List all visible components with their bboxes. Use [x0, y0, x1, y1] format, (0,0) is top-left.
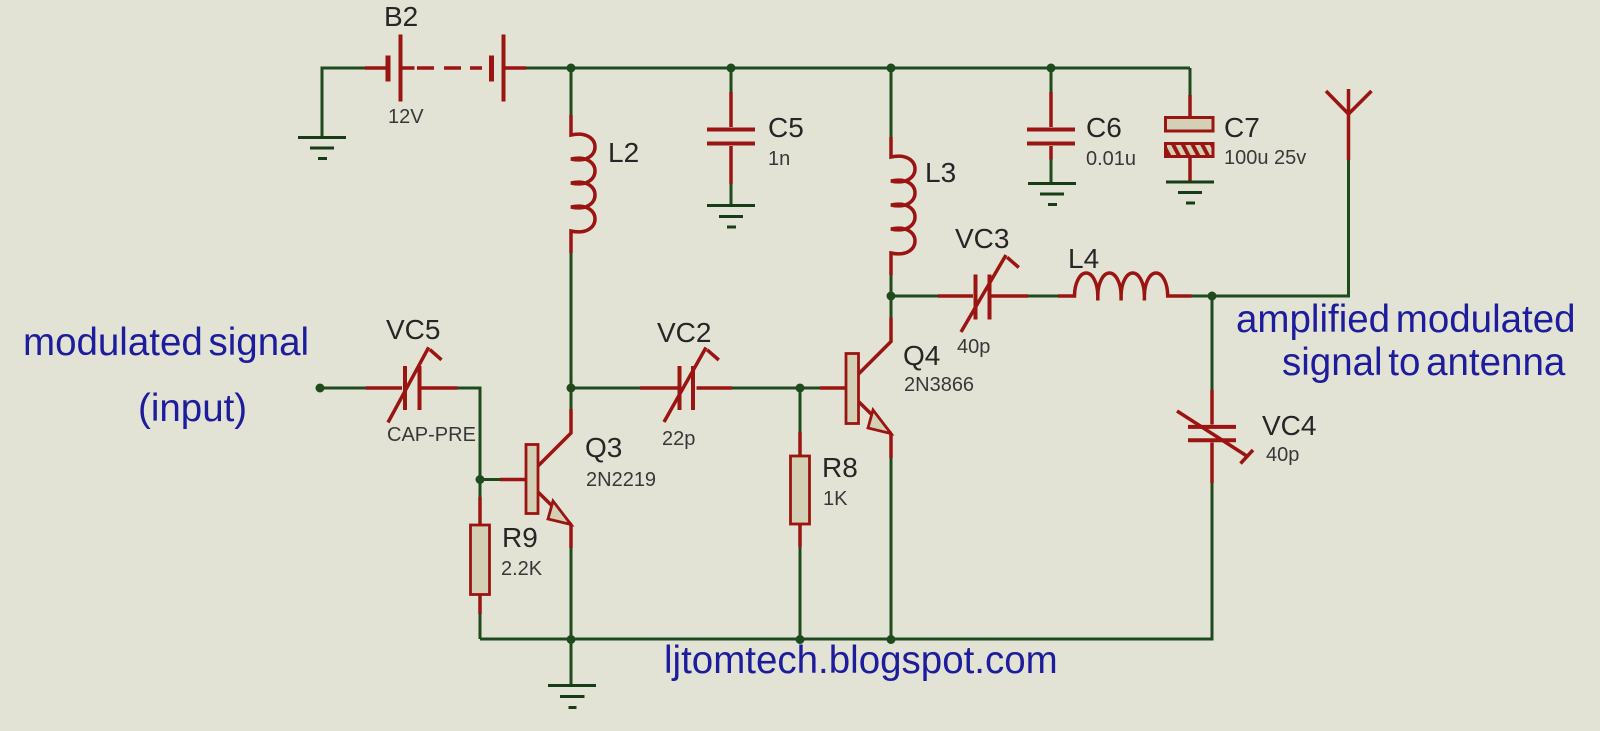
svg-text:signal to antenna: signal to antenna	[1282, 341, 1566, 384]
wire collector node to Q4	[890, 296, 893, 318]
svg-text:40p: 40p	[957, 336, 990, 358]
svg-text:2.2K: 2.2K	[501, 558, 543, 580]
svg-text:R9: R9	[502, 522, 538, 553]
node Q4 base / R8	[796, 384, 805, 393]
svg-text:CAP-PRE: CAP-PRE	[387, 424, 476, 446]
svg-text:ljtomtech.blogspot.com: ljtomtech.blogspot.com	[664, 639, 1058, 682]
svg-text:amplified modulated: amplified modulated	[1236, 298, 1576, 341]
node bottom rail / Q4 emitter	[887, 635, 896, 644]
ground (bottom rail)	[548, 686, 596, 708]
wire base node to Q3	[480, 478, 500, 481]
wire top power rail	[526, 67, 1190, 70]
wire L2 to collector node	[570, 253, 573, 388]
svg-text:VC4: VC4	[1262, 410, 1316, 441]
node top rail / C6	[1047, 64, 1056, 73]
capacitor C6	[1027, 92, 1075, 160]
wire VC4 to bottom rail	[480, 483, 1212, 639]
wire base node to R9	[479, 480, 482, 498]
svg-text:C7: C7	[1224, 112, 1260, 143]
ground (C6)	[1028, 184, 1076, 205]
variable capacitor VC4	[1177, 390, 1253, 483]
transistor Q3	[500, 409, 571, 548]
svg-text:Q3: Q3	[585, 432, 622, 463]
wire collector node to VC3	[891, 295, 938, 298]
node Q3 base / R9	[476, 475, 485, 484]
wire rail to L3	[890, 68, 893, 137]
wire VC2 to Q4 base node	[732, 387, 800, 390]
wire R8 to bottom rail	[799, 547, 802, 639]
resistor R8	[791, 432, 810, 547]
svg-text:R8: R8	[822, 452, 858, 483]
ground (left, battery)	[298, 138, 346, 159]
inductor L2	[571, 115, 595, 253]
svg-text:L3: L3	[925, 157, 956, 188]
node top rail / C5	[727, 64, 736, 73]
wire C6 to ground	[1050, 160, 1053, 184]
capacitor C7 (electrolytic)	[1166, 95, 1214, 182]
wire collector node stub	[570, 388, 573, 409]
svg-text:(input): (input)	[138, 387, 247, 430]
antenna	[1326, 89, 1372, 160]
wire antenna to output node	[1212, 160, 1349, 296]
node bottom rail / ground tap	[567, 635, 576, 644]
wire Q3 emitter to bottom rail	[570, 548, 573, 639]
wire L4 to output node	[1192, 295, 1213, 298]
node Q3 collector / L2 / VC2	[567, 384, 576, 393]
svg-text:Q4: Q4	[903, 340, 940, 371]
node top rail / L2	[567, 64, 576, 73]
svg-text:1n: 1n	[768, 148, 790, 170]
capacitor C5	[707, 92, 755, 184]
resistor R9	[471, 497, 490, 614]
node output (L4/VC4/antenna)	[1208, 292, 1217, 301]
svg-text:40p: 40p	[1266, 444, 1299, 466]
wire rail to C6	[1050, 68, 1053, 92]
svg-text:modulated signal: modulated signal	[23, 321, 309, 364]
transistor Q4	[820, 318, 891, 459]
svg-text:C6: C6	[1086, 112, 1122, 143]
wire rail to L2	[570, 68, 573, 115]
battery B2	[365, 35, 526, 102]
wire ground stub	[570, 639, 573, 685]
wire rail to C5	[730, 68, 733, 92]
svg-text:VC3: VC3	[955, 223, 1009, 254]
wire base node to R8	[799, 388, 802, 432]
svg-text:B2: B2	[384, 1, 418, 32]
ground (C7)	[1166, 182, 1214, 203]
svg-text:12V: 12V	[388, 106, 424, 128]
wire input to VC5	[320, 387, 366, 390]
svg-text:C5: C5	[768, 112, 804, 143]
wire C5 to ground	[730, 184, 733, 205]
wire R9 to bottom rail	[479, 614, 482, 639]
wire VC3 to L4	[1028, 295, 1058, 298]
node bottom rail / R8	[796, 635, 805, 644]
variable capacitor VC5	[366, 347, 458, 422]
wire collector node to VC2	[575, 387, 640, 390]
svg-text:L2: L2	[608, 137, 639, 168]
node input terminal	[316, 384, 325, 393]
wire output node to VC4	[1211, 296, 1214, 390]
svg-text:22p: 22p	[662, 428, 695, 450]
svg-text:2N2219: 2N2219	[586, 469, 656, 491]
wire L3 to Q4 collector node	[890, 275, 893, 296]
svg-text:0.01u: 0.01u	[1086, 148, 1136, 170]
ground (C5)	[707, 206, 755, 228]
inductor L3	[891, 137, 915, 275]
wire Q4 emitter to bottom rail	[890, 458, 893, 639]
wire VC5 to Q3 base node	[458, 388, 481, 480]
wire battery negative to ground	[322, 68, 365, 137]
wire base node to Q4	[800, 387, 820, 390]
svg-text:1K: 1K	[823, 488, 848, 510]
node Q4 collector / L3 / VC3	[887, 292, 896, 301]
svg-text:2N3866: 2N3866	[904, 374, 974, 396]
wire rail corner to C7	[1189, 68, 1192, 95]
svg-text:100u 25v: 100u 25v	[1224, 147, 1306, 169]
svg-text:VC5: VC5	[386, 314, 440, 345]
svg-text:L4: L4	[1068, 243, 1099, 274]
inductor L4	[1058, 273, 1192, 301]
svg-text:VC2: VC2	[657, 317, 711, 348]
variable capacitor VC3	[938, 255, 1028, 332]
node top rail / L3	[887, 64, 896, 73]
variable capacitor VC2	[640, 348, 732, 423]
